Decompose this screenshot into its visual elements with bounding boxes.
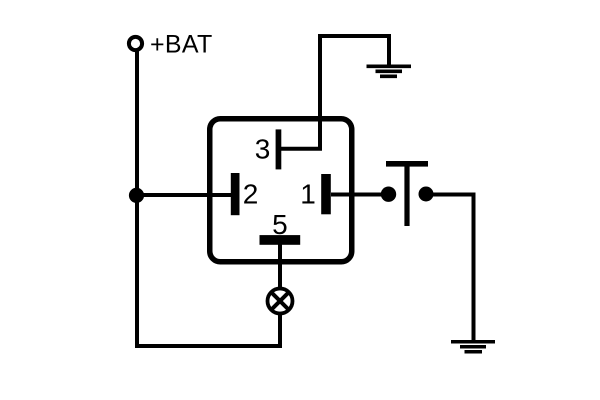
svg-text:3: 3: [255, 134, 271, 165]
svg-text:1: 1: [300, 179, 316, 210]
svg-text:+BAT: +BAT: [150, 31, 213, 59]
svg-text:5: 5: [272, 209, 288, 240]
svg-text:2: 2: [243, 179, 259, 210]
